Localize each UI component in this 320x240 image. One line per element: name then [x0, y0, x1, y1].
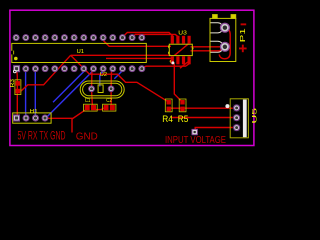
wire C1 to C2 link: [94, 108, 104, 110]
connector P1 body outline: [210, 18, 236, 61]
wire R4/R5 bottom pads to U5 pin 1: [167, 107, 237, 109]
resistor R5 frame: [179, 99, 186, 112]
wire P1 pad 1 wrap to pad 2: [219, 28, 230, 59]
wire junction horizontal run to U3: [71, 54, 171, 56]
wire U1 top pin 12 to U3 pad 1: [122, 33, 173, 38]
wire U3 internal diagonal: [174, 44, 188, 56]
connector P1 tab 2: [231, 15, 236, 19]
wire U1 bottom pin 14 to U3 bottom pad 4: [141, 64, 189, 69]
capacitor C1 pads: [85, 105, 90, 110]
connector U5 pads 1-3: [233, 104, 241, 132]
wire U1 to U2 left pad to C1: [91, 69, 94, 106]
wire U1 top pin 13 to U3 pad 2: [132, 34, 179, 37]
svg-text:GND: GND: [76, 130, 98, 142]
resistor R5 pads: [180, 100, 184, 105]
svg-text:P1: P1: [240, 28, 247, 42]
svg-text:R4: R4: [162, 114, 173, 124]
IC U3 pin1 white dot: [171, 61, 174, 64]
wire U3 bottom pad 4 diagonal: [180, 62, 188, 68]
IC U3 edge bumps: [168, 45, 193, 54]
P1 minus polarity mark: [241, 23, 247, 25]
IC U1 bottom row pads pins 1-14 (pin 1 square): [13, 65, 145, 72]
IC U1 pin1 notch gap: [11, 51, 13, 55]
resistor R4 pads: [167, 100, 171, 105]
connector P1 pad 1: [220, 23, 230, 33]
resistor R4 frame: [165, 99, 172, 112]
pin header H1 box: [13, 113, 51, 123]
IC U1 pin1 marker dot: [14, 57, 18, 61]
svg-text:H1: H1: [30, 109, 38, 115]
wire GND node to C1 left pad: [72, 110, 85, 119]
wire lower run to U3 left: [106, 57, 171, 59]
svg-text:U5: U5: [252, 107, 259, 123]
IC U3 bottom pads: [171, 56, 174, 64]
connector U5 pin1 white dot: [225, 104, 229, 108]
IC U3 pin1 marker dot: [170, 60, 173, 63]
via near U1 pin 1: [13, 70, 17, 74]
wire to U5 pin 2: [172, 117, 237, 119]
svg-text:U2: U2: [100, 72, 107, 78]
svg-text:C1: C1: [85, 98, 91, 104]
connector P1 pad 2: [220, 42, 230, 52]
wire U3 bottom pad 1 to R5 top pad: [174, 64, 181, 102]
crystal U2 inner oval: [83, 83, 122, 96]
capacitor C2 frame: [103, 104, 116, 111]
wire bottom-layer U1 pin 10 into U2: [100, 69, 103, 87]
P1 plus polarity mark: [239, 45, 247, 53]
wire bottom-layer U1 pin 2 to H1 pin 2: [25, 69, 27, 118]
board edge outline: [10, 10, 254, 145]
IC U1 body outline: [12, 43, 147, 62]
connector P1 terminal opening 2: [211, 41, 224, 52]
wire R3 bottom pad up to center junction: [21, 55, 71, 91]
wire U1 to U2 right pad to C2: [110, 69, 112, 106]
IC U1 top row pads pins 15-28: [13, 34, 146, 41]
connector P1 tab 1: [213, 15, 218, 19]
wire H1 pin 4 to GND node: [45, 118, 72, 132]
wire U3 to P1 lower pad lower run: [191, 49, 223, 51]
single square pad node INPUT VOLTAGE: [192, 129, 198, 135]
IC U3 top pads: [171, 36, 174, 44]
IC U3 body outline: [169, 44, 192, 55]
connector U5 box: [230, 99, 248, 138]
wire junction long run to R4 top pad: [71, 55, 168, 101]
connector P1 terminal opening 1: [211, 23, 224, 53]
svg-text:INPUT VOLTAGE: INPUT VOLTAGE: [165, 134, 226, 146]
wire U1 top pin 14 stub: [142, 35, 144, 37]
wire bottom-layer U1 pin 3 to H1 pin 3: [34, 69, 36, 118]
pin header H1 pads (pin 1 square): [13, 115, 48, 122]
svg-text:R3: R3: [10, 79, 16, 88]
svg-text:R5: R5: [178, 114, 189, 124]
connector U5 white body bar: [243, 100, 247, 138]
crystal U2 center rect: [98, 85, 103, 93]
resistor R3 pads: [16, 81, 21, 86]
svg-text:C2: C2: [106, 98, 112, 104]
svg-text:5V RX TX GND: 5V RX TX GND: [18, 129, 66, 143]
wire U1 pin 1 through R3 to H1 pin 1: [16, 69, 19, 118]
crystal U2 pads: [88, 85, 114, 92]
resistor R3 frame: [15, 80, 21, 95]
wire bottom-layer U1 pin 8 diagonal: [53, 69, 83, 102]
svg-text:U3: U3: [178, 30, 187, 36]
crystal U2 outer oval: [80, 81, 124, 98]
wire U3 to P1 lower pad upper run: [191, 46, 224, 48]
IC U1 pin1 notch: [13, 51, 15, 55]
wire U1 top pin 11 to U3 left: [103, 38, 171, 47]
capacitor C1 frame: [84, 104, 98, 111]
wire single pad to U5 pin 3: [195, 128, 237, 130]
wire bottom-layer U1 pin 9 to H1 pin 4: [46, 69, 93, 118]
svg-text:U1: U1: [77, 49, 85, 55]
capacitor C2 pads: [104, 105, 109, 110]
wire bottom-layer U1 pin 12 stub: [114, 69, 122, 79]
